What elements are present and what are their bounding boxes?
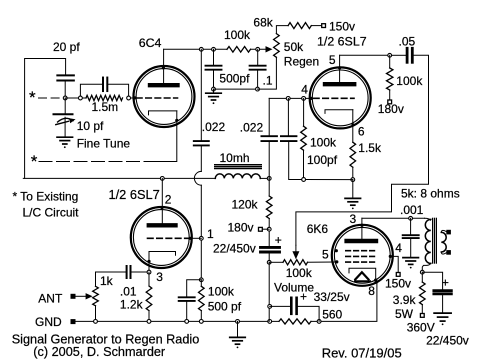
junction dot 6K6 suppressor: [335, 249, 338, 252]
svg-text:2: 2: [165, 193, 172, 207]
wire cathode junction to 1.2k: [148, 272, 150, 286]
svg-text:.01: .01: [120, 285, 137, 299]
tube 1/2 6SL7 (second) envelope: [310, 67, 371, 128]
junction dot grid at 6C4 envelope: [133, 96, 136, 99]
svg-text:5: 5: [322, 248, 329, 262]
junction coil / .022 / 120k: [267, 177, 271, 181]
svg-text:100k: 100k: [310, 136, 337, 150]
svg-text:150v: 150v: [329, 19, 355, 33]
svg-text:+: +: [275, 233, 282, 247]
wire 6SL7-2 grid rail: [269, 97, 310, 99]
wire 100k grid leak bottom: [303, 150, 305, 179]
tube 6SL7-1 grid dashed: [148, 237, 189, 239]
transformer primary lead bottom: [422, 263, 431, 270]
tube 6SL7-2 plate bar: [325, 82, 354, 86]
wire 1.2k to bottom rail: [148, 311, 150, 322]
wire top junction down to .022: [200, 49, 202, 140]
capacitor parallel with 1.5m: [102, 78, 104, 92]
svg-text:8: 8: [368, 284, 375, 298]
junction 500pf bottom: [212, 87, 216, 91]
tube 6K6 grid row 1: [346, 250, 375, 252]
wire plate load top lead: [389, 55, 391, 68]
ground below .001: [403, 257, 419, 259]
terminal speaker top square: [446, 230, 451, 235]
wire 10pf to ground: [64, 117, 66, 137]
svg-text:6K6: 6K6: [307, 222, 329, 236]
tube 6SL7-2 grid dashed: [314, 97, 355, 99]
junction grid rail at 100k: [302, 97, 306, 101]
junction 500pf-2 bottom: [185, 320, 189, 324]
capacitor 10 pf variable - top lead: [64, 98, 66, 113]
resistor 1.5k: [350, 142, 356, 167]
junction cathode / .01 cap: [147, 270, 151, 274]
terminal 360V: [420, 314, 424, 318]
wire 500pf junction ground stub: [213, 89, 215, 93]
wire 22/450 to volume rail: [268, 252, 270, 262]
capacitor 22/450v (left) electrolytic: [261, 246, 280, 249]
ground below 500pf: [206, 92, 222, 94]
wire hop over grid rail: [194, 171, 201, 185]
junction grid rail at 100pf: [286, 97, 290, 101]
capacitor .01: [126, 266, 128, 278]
wire .001 to ground: [410, 238, 412, 258]
tube 6K6 beam bar: [355, 280, 370, 282]
potentiometer 100k volume: [283, 260, 308, 265]
wire 6K6 screen to 150v: [390, 256, 398, 272]
wire 100k grid leak top: [303, 98, 305, 126]
tube 6SL7-1 cathode: [149, 252, 176, 256]
svg-text:100k: 100k: [208, 284, 235, 298]
capacitor 33/25v electrolytic: [290, 298, 293, 314]
svg-text:.05: .05: [399, 34, 416, 48]
wire pot bottom to .1 bottom junction: [258, 57, 277, 89]
tube 1/2 6SL7 (first) envelope: [131, 207, 192, 268]
svg-text:180v: 180v: [228, 221, 254, 235]
wire bottom rail right: [311, 283, 377, 321]
terminal grid of 6C4: [127, 96, 131, 100]
resistor 560: [279, 319, 311, 324]
junction grid leak bottom: [302, 178, 306, 182]
svg-text:Rev. 07/19/05: Rev. 07/19/05: [322, 345, 402, 360]
tube 6C4 grid dashed: [137, 97, 178, 99]
svg-text:50k: 50k: [284, 40, 304, 54]
capacitor .05 coupling: [406, 48, 409, 62]
svg-text:360V: 360V: [407, 321, 435, 335]
wire coil junction to 120k: [268, 178, 270, 195]
wire .022 down to hop: [200, 145, 202, 171]
svg-text:.022: .022: [202, 120, 226, 134]
junction plate bus at .001: [409, 216, 413, 220]
svg-text:L/C Circuit: L/C Circuit: [23, 206, 80, 220]
junction dot 6K6 cathode: [374, 279, 377, 282]
svg-text:3: 3: [350, 212, 357, 226]
capacitor 500pf top lead: [213, 49, 215, 64]
wire 100k to bottom rail: [200, 311, 202, 322]
wire 100pf bottom: [289, 142, 302, 179]
wire 20pf bottom lead to node: [64, 81, 66, 99]
wire bypass cap branch over 1.5m: [80, 84, 128, 96]
arrow volume wiper: [295, 245, 297, 251]
svg-text:.022: .022: [240, 120, 264, 134]
junction dot 6SL7-1 envelope top: [160, 206, 163, 209]
junction dot 6K6 screen exit: [389, 255, 392, 258]
terminal 150v supply: [322, 24, 326, 28]
junction volume rail: [267, 260, 271, 264]
junction .1 bottom: [256, 87, 260, 91]
capacitor .1 bottom lead: [257, 70, 259, 89]
terminal GND square: [71, 319, 76, 324]
tube 6SL7-2 plate lead: [339, 55, 341, 84]
svg-text:*: *: [29, 88, 36, 107]
capacitor 10 pf variable - curved plate: [58, 118, 73, 122]
svg-text:1.5m: 1.5m: [92, 100, 119, 114]
arrow fine-tune wiper: [56, 121, 69, 124]
tube 6K6 plate bar: [347, 239, 376, 243]
svg-text:3.9k: 3.9k: [393, 293, 417, 307]
junction node at 20pf / 10pf / 1.5m: [63, 96, 67, 100]
capacitor 500pf: [206, 65, 222, 67]
svg-text:150v: 150v: [385, 277, 411, 291]
capacitor .001: [403, 234, 419, 236]
potentiometer 1k: [93, 286, 99, 306]
junction dot 6K6 envelope top: [360, 224, 363, 227]
wire to 22/450v right: [422, 272, 442, 289]
svg-text:10 pf: 10 pf: [77, 119, 104, 133]
capacitor 500 pf (lower): [179, 296, 195, 298]
capacitor 500pf bottom lead: [213, 70, 215, 89]
junction ground stub: [236, 320, 240, 324]
junction 33/25v tap: [268, 305, 272, 309]
capacitor 100pf top lead: [287, 98, 289, 135]
ground below bottom rail: [230, 336, 246, 338]
tube 6SL7-2 cathode lead: [352, 110, 354, 143]
junction dot 6K6 grid: [335, 260, 338, 263]
svg-text:1: 1: [207, 227, 214, 241]
svg-text:1k: 1k: [100, 274, 114, 288]
wire plate load bottom lead: [389, 90, 391, 100]
svg-text:1.5k: 1.5k: [358, 141, 382, 155]
svg-text:(c) 2005, D. Schmarder: (c) 2005, D. Schmarder: [33, 345, 166, 359]
wire lower line solid to 6C4 cathode: [151, 111, 177, 162]
tube 6C4 envelope: [134, 66, 195, 127]
svg-text:1/2 6SL7: 1/2 6SL7: [109, 187, 160, 202]
svg-text:.1: .1: [263, 73, 273, 87]
svg-text:100k: 100k: [224, 28, 251, 42]
potentiometer 50k regen: [274, 34, 280, 58]
svg-text:GND: GND: [35, 315, 62, 329]
capacitor 10 pf variable - top plate: [54, 113, 73, 115]
tube 6C4 plate bar: [150, 83, 178, 87]
junction top rail at 500pf: [212, 47, 216, 51]
resistor 1.2k: [146, 286, 152, 311]
resistor 68k: [288, 23, 311, 29]
junction 1.2k bottom: [147, 320, 151, 324]
wire volume rail: [269, 261, 283, 263]
capacitor .1: [250, 65, 266, 67]
capacitor 100pf: [281, 135, 297, 137]
wire 22/450v right to ground: [442, 294, 444, 313]
tube 6K6 grid row 3: [346, 261, 375, 263]
resistor 100k plate load: [387, 68, 393, 90]
wire ground stub: [237, 321, 239, 337]
ground below 10 pf: [57, 136, 73, 138]
junction cathode ground: [351, 178, 355, 182]
capacitor 20 pf: [57, 74, 74, 76]
wire pot top to 68k: [276, 26, 288, 34]
wire dashed lower * line: [39, 161, 151, 163]
resistor 100k grid leak: [301, 126, 307, 150]
wire 500pf bottom to .1 bottom: [214, 88, 258, 90]
svg-text:10mh: 10mh: [220, 151, 250, 165]
junction 180v tap: [267, 227, 271, 231]
wire 500pf-2 to bottom rail: [186, 301, 188, 322]
wire grid rail from box bottom: [23, 177, 215, 179]
ground below 22/450v right: [434, 312, 451, 314]
svg-text:4: 4: [395, 241, 402, 255]
svg-text:22/450v: 22/450v: [426, 334, 469, 348]
wire 180v terminal stub: [262, 228, 269, 230]
wire .05 to volume wiper route: [296, 55, 429, 245]
junction dot 6C4 envelope top: [162, 66, 165, 69]
wire 1k pot to bottom rail: [95, 306, 97, 322]
resistor 1.5m: [86, 95, 123, 100]
wire 68k to 150v terminal: [311, 25, 321, 27]
wire 3.9k top lead: [421, 272, 423, 282]
svg-text:22/450v: 22/450v: [213, 241, 256, 255]
tube 6K6 grid row 2 screen: [346, 255, 375, 257]
wire 6K6 plate bus: [362, 217, 425, 219]
resistor 100k (top): [227, 47, 251, 53]
wire node to 1.5m resistor: [65, 97, 85, 99]
wire bottom rail left: [76, 320, 279, 322]
tube 6K6 envelope: [332, 225, 393, 286]
junction 6SL7-1 plate lead: [160, 177, 164, 181]
tube 6SL7-1 plate bar: [149, 223, 176, 227]
resistor 120k: [266, 196, 272, 219]
svg-text:100pf: 100pf: [307, 153, 338, 167]
junction dot 6C4 cathode exit: [175, 119, 178, 122]
wire 33/25v branch: [270, 305, 292, 307]
ground 6SL7-2 cathode: [345, 197, 361, 199]
transformer secondary winding: [441, 232, 446, 252]
junction grid tap 6SL7-1: [199, 236, 203, 240]
wire branch to 500pf-2: [187, 280, 202, 297]
tube 6K6 cathode: [349, 268, 376, 279]
svg-text:Regen: Regen: [284, 54, 319, 68]
wire 6SL7-1 grid to tap: [190, 237, 201, 239]
junction at .1 cap top: [256, 47, 260, 51]
wire coil to junction: [260, 177, 269, 179]
junction transformer bottom / 3.9k: [420, 270, 424, 274]
wire mid vertical down: [268, 262, 270, 321]
junction dot 6SL7-1 grid exit: [189, 237, 192, 240]
svg-text:5W: 5W: [395, 307, 414, 321]
terminal 150v bottom: [396, 273, 400, 277]
tube 6SL7-2 cathode: [325, 110, 353, 114]
transformer primary lead top: [425, 218, 431, 220]
svg-text:+: +: [300, 290, 307, 304]
svg-text:+: +: [442, 275, 449, 289]
wire 1.5k to ground junction: [352, 167, 354, 179]
svg-text:5k: 8 ohms: 5k: 8 ohms: [401, 187, 460, 201]
wire L/C box outline (top and left of existing L/C circuit box): [25, 59, 66, 179]
wire volume pot to 6K6 grid: [308, 261, 336, 263]
wire top rail from 6C4 plate: [164, 48, 227, 50]
terminal 180v right: [388, 100, 392, 104]
svg-text:33/25v: 33/25v: [314, 290, 350, 304]
wire grid leak return to cathode: [306, 179, 353, 181]
tube 6K6 beam triangle: [355, 272, 368, 279]
wire 33/25v to bottom rail: [297, 306, 320, 321]
junction plate load top: [388, 53, 392, 57]
arrow ANT wiper: [76, 295, 87, 297]
wire tap to 100k: [200, 280, 202, 287]
capacitor .022 (right): [261, 135, 277, 137]
transformer primary winding: [425, 219, 431, 263]
svg-text:1/2 6SL7: 1/2 6SL7: [317, 34, 367, 48]
transformer secondary lead bottom: [441, 252, 446, 254]
svg-text:1.2k: 1.2k: [120, 298, 144, 312]
junction at 1.5m left: [79, 96, 83, 100]
junction dot 6SL7-2 grid entry: [310, 97, 313, 100]
tube 6C4 cathode: [149, 111, 177, 115]
svg-text:560: 560: [322, 307, 342, 321]
tube 6SL7-1 plate lead (pin 2): [161, 178, 163, 225]
junction dot 6SL7-2 cathode exit: [351, 123, 354, 126]
svg-text:120k: 120k: [232, 197, 259, 211]
svg-text:.001: .001: [400, 203, 424, 217]
resistor 3.9k: [420, 282, 426, 305]
wire hop down to 6SL7 grid tap: [200, 185, 202, 280]
svg-text:180v: 180v: [378, 102, 404, 116]
svg-text:68k: 68k: [253, 16, 273, 30]
junction 1k bottom: [94, 320, 98, 324]
wire 100k to regen arrow: [251, 48, 267, 50]
svg-text:100k: 100k: [286, 266, 313, 280]
svg-text:6C4: 6C4: [139, 36, 162, 50]
junction dot 6SL7-2 envelope top: [338, 66, 341, 69]
capacitor 22/450v (right) electrolytic: [434, 289, 452, 292]
junction dot 6SL7-1 cathode exit: [147, 260, 150, 263]
svg-text:5: 5: [329, 53, 336, 67]
junction 100k/500pf top: [199, 278, 203, 282]
svg-text:100k: 100k: [396, 74, 423, 88]
capacitor .001 top lead: [410, 218, 412, 234]
svg-text:*: *: [31, 152, 38, 171]
svg-text:6: 6: [358, 125, 365, 139]
svg-text:Fine Tune: Fine Tune: [77, 137, 131, 151]
wire 120k to 22/450 cap: [268, 219, 270, 247]
junction top rail at .022 drop: [199, 47, 203, 51]
terminal ANT square: [71, 294, 76, 299]
capacitor .1 top lead: [257, 49, 259, 64]
tube 6K6 plate lead: [361, 218, 363, 241]
wire grid terminal to 6C4 envelope: [131, 97, 135, 99]
wire cathode ground stub: [352, 180, 354, 199]
svg-text:500pf: 500pf: [219, 72, 250, 86]
wire .05 left lead: [392, 54, 406, 56]
wire .01 to 1k pot top: [96, 272, 127, 286]
inductor 10mh core lines: [215, 164, 262, 166]
transformer secondary lead top: [441, 230, 446, 232]
svg-text:Volume: Volume: [274, 281, 314, 295]
transformer core: [432, 218, 434, 263]
terminal 180v left: [259, 227, 263, 231]
junction 100k bottom: [199, 320, 203, 324]
wire dashed stub from * to node: [39, 97, 66, 99]
wire .022-2 top lead: [268, 98, 270, 135]
svg-text:4: 4: [301, 83, 308, 97]
terminal speaker bottom square: [446, 250, 451, 255]
svg-text:ANT: ANT: [38, 292, 63, 306]
svg-text:* To Existing: * To Existing: [13, 190, 79, 204]
tube 6C4 plate lead: [163, 49, 165, 85]
wire 6SL7-2 plate to top right: [340, 54, 388, 56]
wire 3.9k bottom lead: [421, 305, 423, 314]
tube 6SL7-1 cathode lead down: [148, 252, 150, 273]
svg-text:500 pf: 500 pf: [208, 300, 242, 314]
resistor 100k (lower): [199, 286, 205, 310]
capacitor .022 (left): [194, 140, 209, 142]
wire .022-2 bottom lead: [268, 142, 270, 178]
svg-text:3: 3: [156, 270, 163, 284]
junction mid vertical bottom: [268, 320, 272, 324]
svg-text:20 pf: 20 pf: [53, 40, 80, 54]
wire 6K6 cathode lead: [376, 280, 377, 283]
inductor 10mh: [215, 174, 260, 179]
wire .01 to cathode junction: [131, 271, 148, 273]
junction 33/25v right leg: [317, 320, 321, 324]
